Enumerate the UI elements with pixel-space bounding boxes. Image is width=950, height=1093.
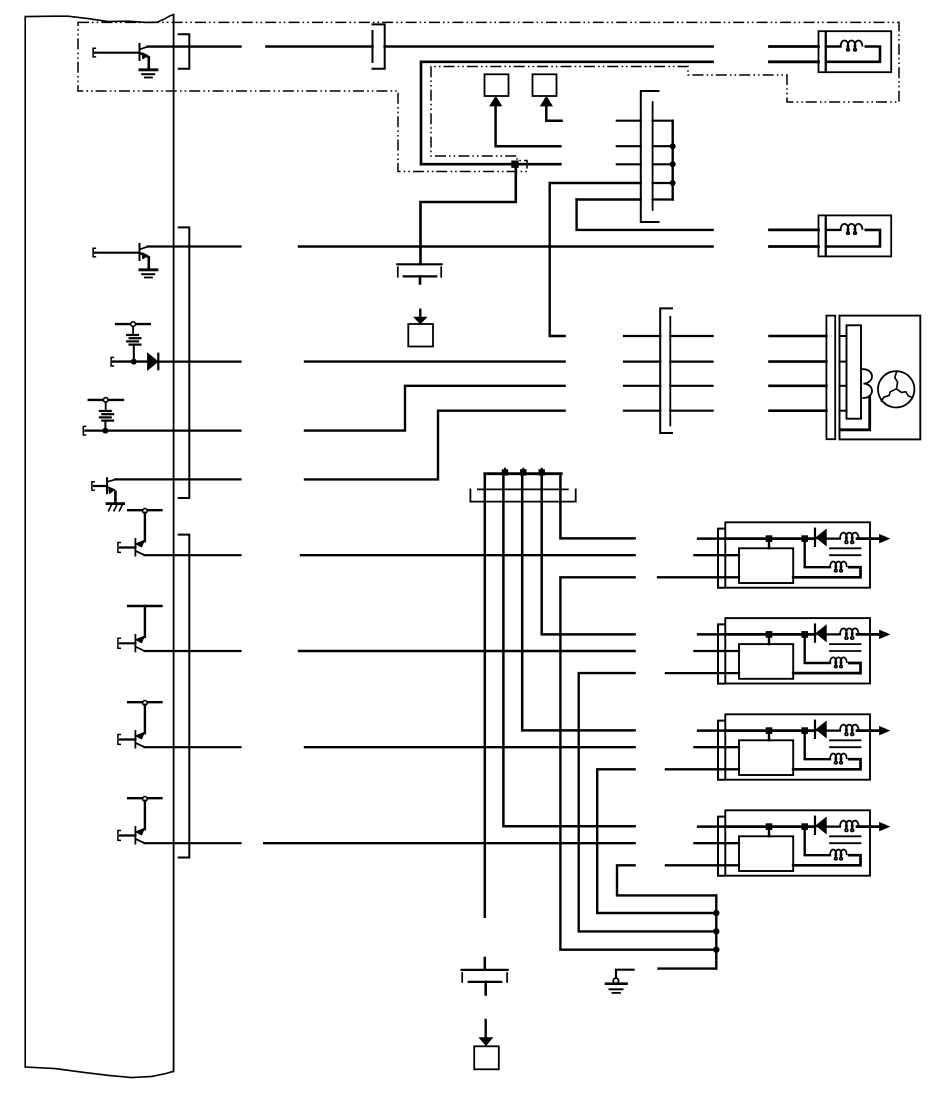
wire unit w3 in [666, 864, 739, 866]
wire BX2 leg [496, 106, 561, 147]
chassis ground G5 [107, 502, 124, 505]
junction dot row4 [102, 428, 108, 434]
relay RY1 box [826, 31, 891, 72]
wire unit w3 in [666, 672, 739, 674]
wire +B relay side [770, 60, 819, 63]
wire branch to capacitor [421, 164, 516, 264]
ground GND1 [606, 982, 627, 985]
phantom dash-dot harness outline [78, 22, 899, 171]
junction dot CN-A p2 [670, 143, 676, 149]
wire relay RY2 top side [770, 228, 819, 231]
junction dot gnd col 1 [713, 910, 719, 916]
arrow into BX2 [490, 97, 501, 106]
ground GND1 terminal circle [613, 978, 618, 983]
wire fan pin2 [770, 360, 827, 363]
wire unit w1 rail [725, 633, 815, 636]
wire pin5 drop to relay RY2 [577, 200, 713, 230]
off-page box BX1 [408, 324, 433, 347]
terminal hook [118, 831, 120, 841]
connector CN-A pin bar [652, 102, 654, 210]
wire row4 out [85, 430, 240, 432]
relay RY2 coil [826, 229, 841, 231]
wire CN-B pin1 left [624, 335, 660, 337]
igniter module box [739, 740, 793, 775]
wire emitter [135, 839, 144, 843]
wire +B vertical drop [420, 62, 423, 164]
wire unit w1 in [698, 633, 725, 636]
supply bar [128, 797, 161, 799]
ignition coil unit box [725, 618, 870, 683]
wire +B feed horizontal [421, 60, 713, 63]
wire unit w1 rail [725, 729, 815, 732]
arrow spark output [880, 823, 889, 831]
wire Q5 base [94, 485, 107, 487]
ignition coil unit bracket [718, 529, 724, 588]
transistor [136, 636, 145, 643]
arrow spark output [880, 630, 889, 638]
bus stub 3 [541, 469, 543, 474]
ECM bottom torn edge [25, 1067, 173, 1078]
wire igniter feed [768, 539, 770, 549]
junction dot unit a [766, 631, 773, 638]
wire fan pin4 [770, 409, 827, 412]
fan thermal contact bumps [861, 369, 872, 398]
wire row1 segment [267, 45, 373, 48]
wire unit w2 in [694, 650, 739, 652]
junction dot bus 3 [539, 469, 545, 475]
supply circle [143, 701, 148, 706]
wire row1 out [148, 45, 241, 47]
wire row8 segment [305, 746, 635, 748]
coil core lines [830, 835, 861, 837]
wire unit w1 in [698, 729, 725, 732]
ignition coil unit box [725, 522, 870, 587]
wire collector lead [144, 801, 146, 829]
ignition coil unit box [725, 810, 870, 875]
secondary coil winding [830, 562, 847, 572]
fan inner resistor block [847, 325, 862, 418]
transistor Q5 [106, 478, 108, 493]
wire V3 to unit3 [522, 474, 634, 731]
wire CN-B pin4 left [624, 410, 660, 412]
wire unit w1 rail [725, 825, 815, 828]
wire spark output [857, 825, 882, 828]
connector bracket B3 [179, 535, 190, 858]
junction dot unit a [766, 727, 773, 734]
fan motor circle [878, 371, 914, 407]
wire base [120, 642, 135, 644]
wire V1 lower segment [484, 958, 487, 970]
wire R1 top lead [132, 327, 134, 334]
resistor R1 [127, 334, 138, 336]
junction dot row3 [131, 359, 137, 365]
terminal hook row4 [83, 426, 85, 435]
wire unit w1 rail [725, 537, 815, 540]
junction dot unit b [801, 535, 808, 542]
fan motor windings [895, 372, 898, 389]
wire row2 relay side [770, 245, 819, 248]
ECM/PCM block outline (torn-edge box) [25, 15, 173, 23]
connector bracket B1 at ECM edge [179, 34, 190, 69]
junction dot gnd col 2 [713, 928, 719, 934]
wire row8 out [145, 746, 241, 748]
wire pin4 drop to CN-B [550, 183, 565, 336]
arrow A1 (to other page) [419, 310, 421, 318]
capacitor C1 bottom plate [404, 275, 437, 277]
wire secondary return [793, 663, 860, 673]
wire secondary return [793, 759, 860, 769]
igniter module box [739, 644, 793, 679]
wire row2 out [148, 245, 241, 247]
terminal hook row2 [93, 248, 95, 257]
wire row1 to relay [385, 45, 713, 48]
wire collector lead [144, 606, 146, 637]
supply bar [128, 605, 161, 607]
wire R1 bottom lead [133, 345, 135, 362]
wire unit w2 in [694, 746, 739, 748]
wire pin3 stub [617, 163, 641, 165]
wire unit w3 in [666, 768, 739, 770]
wire +B lower horizontal [421, 163, 560, 166]
supply circle row3 [131, 322, 136, 327]
wire R2 top lead [105, 403, 107, 411]
connector CN-B bracket [660, 308, 672, 433]
wire V1 (to condenser) [484, 474, 487, 917]
wire row3 segment [305, 360, 565, 362]
primary coil winding [826, 729, 840, 731]
ignition coil unit bracket [718, 817, 724, 876]
junction dot node W [511, 161, 518, 168]
wire ground column [715, 895, 717, 968]
wire row6 segment [301, 554, 635, 556]
bus stub 1 [504, 469, 506, 474]
wire spark output [857, 729, 882, 732]
capacitor C2 stub [484, 982, 487, 995]
wire spark output [857, 537, 882, 540]
terminal hook [118, 543, 120, 553]
ground G1 [140, 68, 157, 71]
wire unit1 w3 left + drop [560, 577, 716, 949]
relay RY2 box [826, 215, 891, 256]
connector CN-A bracket [641, 91, 659, 222]
fan connector bracket [826, 316, 835, 440]
wire emitter [135, 647, 144, 651]
junction dot unit b [801, 631, 808, 638]
terminal hook row5 [92, 482, 94, 491]
wire bus bar [485, 472, 561, 475]
wire CN-B pin1 right [670, 335, 712, 337]
junction dot gnd col 3 [713, 947, 719, 953]
wire unit w1 in [698, 537, 725, 540]
wire base [120, 834, 135, 836]
wire secondary return [793, 855, 860, 865]
wire row5 segment with riser [305, 411, 565, 480]
junction dot bus 1 [502, 469, 508, 475]
wire row7 out [145, 650, 241, 652]
capacitor C1 stub [419, 276, 422, 283]
fan box [840, 316, 921, 440]
wire CN-B pin2 right [670, 361, 712, 363]
wire secondary feed [805, 634, 830, 663]
wire CN-A bus vertical [672, 121, 674, 200]
wire row3 out [158, 361, 240, 363]
wire emitter [135, 551, 144, 555]
junction dot CN-A p3 [670, 161, 676, 167]
primary coil winding [826, 537, 840, 539]
wire unit w2 in [694, 554, 739, 556]
terminal hook row3 [111, 357, 113, 366]
wire CN-B pin2 left [624, 361, 660, 363]
transistor [136, 540, 145, 547]
transistor Q2 [139, 244, 141, 260]
transistor [136, 732, 145, 739]
wire row3 base [113, 360, 147, 362]
wire base [120, 546, 135, 548]
wire CN-B pin4 right [670, 410, 712, 412]
wire ground column bottom [659, 967, 717, 969]
diode unit [816, 530, 826, 546]
connector CN-B pin bar [669, 317, 671, 426]
arrow spark output [880, 535, 889, 543]
terminal hook [118, 735, 120, 745]
junction dot CN-A p4 [670, 180, 676, 186]
wire CN-A output stubs [653, 120, 673, 122]
wire R2 bottom lead [104, 421, 106, 431]
arrow into BX3 [541, 97, 552, 106]
igniter module box [739, 548, 793, 583]
capacitor C2 bottom plate [469, 981, 502, 983]
wire pin1 stub [617, 120, 641, 122]
supply bar row3 [116, 323, 150, 325]
inline connector row1 (female bracket) [373, 24, 385, 68]
ground G2 [140, 268, 157, 271]
supply circle [143, 797, 148, 802]
wire unit4 w3 left + drop [617, 865, 716, 895]
diode unit [816, 722, 826, 738]
arrow A2 (to other page) [485, 1020, 487, 1038]
junction dot unit a [766, 535, 773, 542]
wire spark output [857, 633, 882, 636]
diode unit [816, 625, 826, 641]
wire secondary feed [805, 827, 830, 856]
primary coil winding [826, 633, 840, 635]
wire Q2 emitter to ground [148, 257, 151, 269]
wire secondary feed [805, 731, 830, 760]
wire Q1 emitter to ground [148, 57, 151, 69]
wire row1 relay side [770, 45, 819, 48]
inline connector row1 (male pin) [372, 31, 374, 62]
primary coil winding [826, 825, 840, 827]
connector CN-C housing [478, 488, 568, 490]
wire fan pin1 [770, 335, 827, 338]
diode D1 [148, 353, 158, 370]
arrow spark output [880, 727, 889, 735]
wire CN-B pin3 right [670, 385, 712, 387]
ECM left edge [24, 17, 26, 1067]
wire fan pin3 [770, 384, 827, 387]
ignition coil unit bracket [718, 624, 724, 683]
capacitor C2 side brackets [461, 973, 463, 982]
resistor R2 [100, 410, 111, 412]
relay RY2 connector bracket [819, 215, 826, 256]
wire unit2 w3 left + drop [579, 673, 717, 931]
wire secondary return [793, 567, 860, 577]
transistor Q1 [139, 44, 141, 60]
wire ground lead [616, 970, 634, 979]
connector bracket B2 [179, 227, 190, 498]
wire row5 out [115, 478, 240, 480]
off-page box BX4 [474, 1046, 499, 1069]
supply circle [143, 509, 148, 514]
wire collector lead [144, 705, 146, 733]
supply circle row4 [103, 398, 108, 403]
terminal hook [118, 638, 120, 648]
wire unit w2 in [694, 842, 739, 844]
ignition coil unit bracket [718, 721, 724, 780]
wire pin2 stub [617, 145, 641, 147]
wire fan motor return [840, 397, 870, 430]
wire igniter feed [768, 731, 770, 741]
off-page box BX2 [485, 74, 509, 96]
transistor [136, 828, 145, 835]
terminal hook row1 [93, 48, 95, 57]
diode unit [816, 818, 826, 834]
wire Q1 base [95, 52, 140, 54]
wire igniter feed [768, 827, 770, 837]
wire secondary feed [805, 539, 830, 568]
wire unit3 w3 left + drop [597, 769, 716, 913]
wire Q5 emitter [114, 492, 117, 504]
wire collector lead [144, 513, 146, 541]
wire row2 segment [299, 245, 713, 247]
capacitor C2 top plate [462, 969, 508, 971]
igniter module box [739, 836, 793, 871]
wire unit w3 in [658, 576, 739, 578]
wire pin5 feed [577, 198, 641, 200]
coil core lines [830, 643, 861, 645]
wire row9 segment [264, 842, 634, 844]
wire row7 segment [299, 650, 635, 652]
relay RY1 coil [826, 45, 841, 47]
wire row9 out [145, 842, 241, 844]
wire BX3 leg [546, 106, 561, 121]
relay RY1 connector bracket [819, 31, 826, 72]
supply bar [128, 701, 161, 703]
coil core lines [830, 739, 861, 741]
wire V5 to unit1 [560, 474, 634, 539]
supply bar row4 [89, 399, 123, 401]
ignition coil unit box [725, 714, 870, 779]
bus stub 2 [522, 469, 524, 474]
wire emitter [135, 743, 144, 747]
ECM right edge [173, 15, 175, 1072]
wire pin4 feed [550, 182, 641, 184]
capacitor C1 top plate [397, 263, 441, 265]
junction dot unit b [801, 727, 808, 734]
junction dot unit a [766, 823, 773, 830]
wire Q2 base [95, 252, 140, 254]
capacitor C1 side brackets [397, 267, 399, 277]
wire row6 out [145, 554, 241, 556]
coil core lines [830, 547, 861, 549]
wire base [120, 738, 135, 740]
fan pin stubs [840, 335, 847, 337]
wire V2 to unit4 [503, 474, 634, 827]
junction dot bus 2 [520, 469, 526, 475]
secondary coil winding [830, 850, 847, 860]
wire unit w1 in [698, 825, 725, 828]
secondary coil winding [830, 657, 847, 667]
wire V4 to unit2 [542, 474, 635, 635]
off-page box BX3 [533, 74, 557, 96]
wire igniter feed [768, 634, 770, 644]
wire CN-B pin3 left [624, 385, 660, 387]
wire row4 segment with riser [305, 386, 565, 431]
secondary coil winding [830, 754, 847, 764]
supply bar [128, 509, 161, 511]
junction dot unit b [801, 823, 808, 830]
